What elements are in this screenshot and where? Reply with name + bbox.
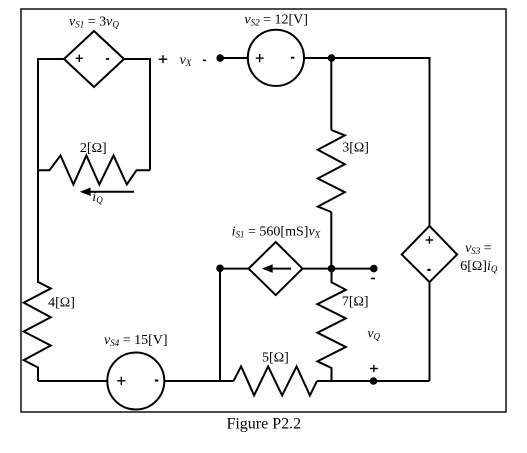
- wire: iS1 right vertex to node B: [303, 268, 332, 270]
- label 4[ohm]: [48, 296, 75, 311]
- wire: node B to terminal dot: [332, 268, 374, 270]
- wire: 3-ohm top lead from node C: [330, 58, 332, 130]
- svg-text:7[Ω]: 7[Ω]: [342, 295, 369, 310]
- wire: node A to iS1 left vertex: [220, 268, 249, 270]
- terminal dot minus of vQ: [370, 265, 378, 273]
- label vQ: [367, 327, 380, 342]
- wire: vS1 left lead and left vertical run down to 4-ohm: [38, 59, 64, 283]
- node B junction dot (3-ohm / 7-ohm tap): [328, 265, 336, 273]
- wire: bottom right run from 5-ohm to right side: [317, 380, 430, 382]
- dependent voltage source vS1 diamond: [64, 31, 124, 87]
- svg-text:iS1 = 560[mS]vX: iS1 = 560[mS]vX: [232, 225, 321, 240]
- label + vX -: [159, 53, 206, 68]
- current arrow iQ under 2-ohm: [80, 188, 134, 197]
- svg-text:Figure P2.2: Figure P2.2: [226, 415, 301, 432]
- label vS3 = 6[ohm]iQ: [460, 241, 498, 274]
- resistor R2 2[ohm]: [38, 156, 150, 185]
- wire: right side from vS3 bottom down to bottom wire: [429, 282, 431, 381]
- wire: vertical run from node A down to bottom wire: [219, 268, 221, 381]
- svg-text:5[Ω]: 5[Ω]: [262, 351, 289, 366]
- resistor R5 5[ohm]: [234, 366, 318, 395]
- node C junction dot (top): [328, 54, 336, 62]
- label + (vQ plus): [370, 365, 378, 372]
- svg-text:3[Ω]: 3[Ω]: [342, 141, 369, 156]
- voltage source vS2 circle: [248, 30, 304, 86]
- wire: top run from vX dot to vS2: [220, 57, 248, 59]
- wire: bottom left run to vS4: [38, 380, 107, 382]
- wire: node C right and down right side to vS3 top: [332, 58, 430, 226]
- dependent current source iS1 diamond with arrow: [249, 242, 303, 295]
- label vS1 = 3vQ: [69, 14, 119, 29]
- wire: vS4 right to 5-ohm: [164, 380, 233, 382]
- wire: 3-ohm bottom lead to node B: [330, 212, 332, 269]
- dependent voltage source vS3 diamond: [402, 226, 457, 282]
- resistor R3 3[ohm]: [318, 130, 345, 212]
- label vS2 = 12[V]: [244, 13, 308, 28]
- label 5[ohm]: [262, 351, 289, 366]
- label 2[ohm]: [80, 141, 107, 156]
- label 3[ohm]: [342, 141, 369, 156]
- label - (vQ minus): [371, 278, 375, 280]
- voltage source vS4 circle: [107, 353, 164, 410]
- terminal dot of vX: [216, 54, 224, 62]
- node A junction dot (left of iS1): [216, 265, 224, 273]
- resistor R4 4[ohm]: [24, 282, 51, 381]
- svg-text:4[Ω]: 4[Ω]: [48, 296, 75, 311]
- caption Figure P2.2: [226, 415, 301, 432]
- label 7[ohm]: [342, 295, 369, 310]
- label iQ: [92, 190, 103, 205]
- wire: vS1 right lead down to 2-ohm right end: [124, 59, 150, 170]
- label iS1 = 560[mS]vX: [232, 225, 321, 240]
- svg-text:2[Ω]: 2[Ω]: [80, 141, 107, 156]
- resistor R7 7[ohm]: [317, 269, 345, 381]
- label vS4 = 15[V]: [104, 333, 168, 348]
- terminal dot plus of vQ: [370, 377, 378, 385]
- wire: vS2 right to node C: [304, 57, 332, 59]
